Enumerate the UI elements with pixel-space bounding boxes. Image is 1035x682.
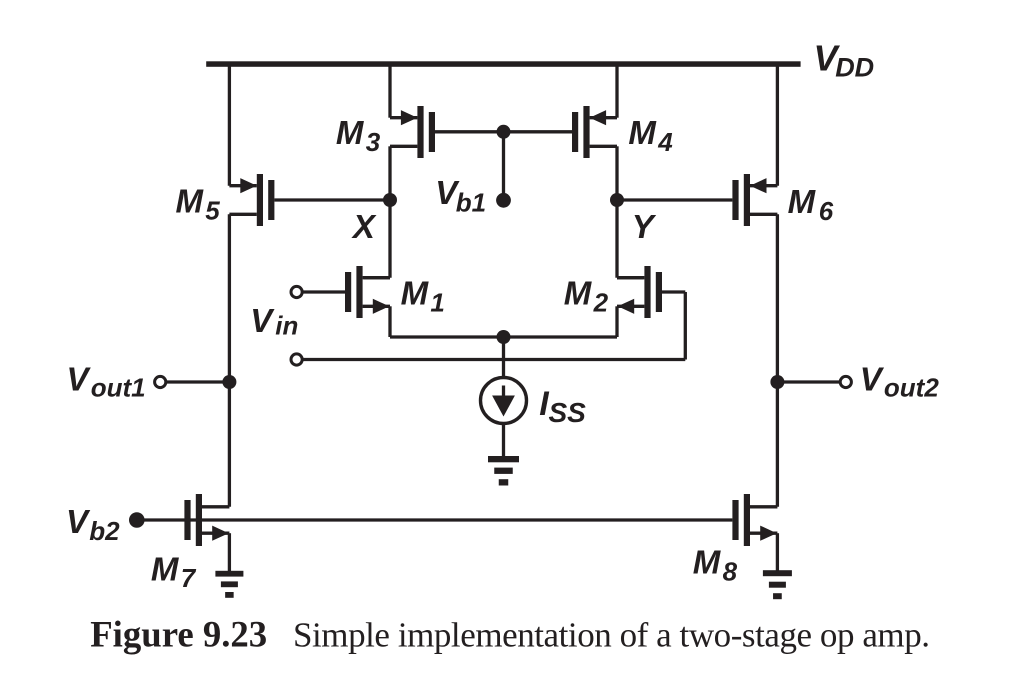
transistor M6: [732, 174, 777, 226]
svg-text:4: 4: [657, 127, 673, 157]
svg-text:1: 1: [430, 288, 444, 318]
label M8: [693, 544, 738, 587]
wire M3 drain to node X: [388, 146, 391, 200]
svg-text:SS: SS: [549, 397, 587, 428]
terminal Vin minus: [291, 354, 302, 365]
svg-text:2: 2: [593, 288, 609, 318]
current source ISS: [481, 378, 527, 424]
svg-text:in: in: [275, 311, 298, 341]
wire M1 source to tail: [388, 306, 391, 337]
svg-text:V: V: [66, 503, 91, 540]
transistor M4: [572, 106, 617, 158]
svg-text:out1: out1: [91, 373, 146, 403]
label VDD: [814, 38, 875, 83]
svg-text:out2: out2: [884, 373, 939, 403]
label M5: [176, 183, 221, 226]
node Vout1 junction: [222, 375, 236, 389]
wire VDD to M4 source: [615, 66, 618, 118]
label ISS: [539, 385, 586, 428]
transistor M5: [229, 174, 274, 226]
wire node X to M1 drain: [388, 200, 391, 278]
label Vin: [250, 302, 298, 341]
label M3: [336, 114, 381, 157]
node Y junction: [610, 193, 624, 207]
svg-text:7: 7: [181, 563, 197, 593]
transistor M7: [184, 494, 229, 546]
wire node Y to M2 drain: [615, 200, 618, 278]
svg-text:M: M: [151, 550, 180, 587]
wire tail to ISS: [502, 337, 505, 377]
ground under M8: [763, 570, 792, 599]
svg-text:M: M: [336, 114, 365, 151]
wire M6 drain to node Vout2: [776, 214, 779, 382]
terminal Vin plus: [291, 286, 302, 297]
svg-text:6: 6: [819, 196, 834, 226]
wire tail horizontal: [390, 335, 617, 338]
wire Vin+ to M1 gate: [303, 290, 345, 293]
wire M3 gate to M4 gate: [435, 130, 572, 133]
wire node Vout1 to M7 drain: [228, 382, 231, 507]
svg-text:Figure 9.23: Figure 9.23: [90, 614, 267, 655]
svg-text:M: M: [628, 114, 657, 151]
svg-text:b1: b1: [456, 187, 486, 217]
label M4: [628, 114, 673, 157]
transistor M1: [345, 266, 390, 318]
wire Vout1 stub: [167, 380, 230, 383]
wire M5 gate to node X: [274, 198, 390, 201]
ground under ISS: [488, 456, 519, 486]
label Vout1: [67, 361, 146, 403]
svg-text:DD: DD: [835, 53, 874, 83]
ground under M7: [215, 571, 243, 598]
wire VDD to M6 source: [776, 66, 779, 186]
wire M8 source to ground: [776, 533, 779, 571]
svg-text:V: V: [250, 302, 275, 339]
label Vb1: [435, 174, 486, 217]
svg-text:Y: Y: [632, 208, 657, 245]
wire M7 source to ground: [228, 533, 231, 571]
wire M6 gate to node Y: [617, 198, 732, 201]
node Vb1 junction: [497, 125, 511, 139]
svg-text:V: V: [860, 361, 885, 398]
node X junction: [383, 193, 397, 207]
wire junction to Vb1 terminal: [502, 132, 505, 201]
node tail junction: [497, 330, 511, 344]
svg-text:8: 8: [723, 556, 738, 586]
label M1: [401, 275, 445, 318]
svg-text:3: 3: [366, 127, 381, 157]
terminal Vb1 dot: [496, 193, 511, 208]
terminal Vb2 dot: [129, 512, 145, 528]
terminal Vout1: [155, 376, 166, 387]
svg-text:b2: b2: [89, 516, 120, 546]
wire VDD to M3 source: [388, 66, 391, 118]
transistor M2: [617, 266, 662, 318]
svg-text:M: M: [176, 183, 205, 220]
svg-text:M: M: [693, 544, 722, 581]
wire M2 source to tail: [615, 306, 618, 337]
wire M5 drain to node Vout1: [228, 214, 231, 382]
svg-text:V: V: [67, 361, 92, 398]
svg-text:M: M: [564, 275, 593, 312]
wire Vout2 stub: [777, 380, 840, 383]
transistor M3: [390, 106, 435, 158]
VDD power rail: [206, 61, 800, 67]
label Vout2: [860, 361, 940, 403]
label M6: [788, 183, 834, 226]
wire Vin- riser to M2 gate: [684, 292, 687, 360]
svg-text:Simple implementation of a two: Simple implementation of a two-stage op …: [293, 616, 930, 655]
label M2: [564, 275, 609, 318]
svg-text:M: M: [401, 275, 430, 312]
transistor M8: [732, 494, 777, 546]
wire node Vout2 to M8 drain: [776, 382, 779, 507]
svg-text:5: 5: [205, 195, 220, 225]
wire M4 drain to node Y: [615, 146, 618, 200]
node Vout2 junction: [770, 375, 784, 389]
label M7: [151, 550, 197, 593]
label Vb2: [66, 503, 120, 546]
wire Vin- line: [303, 358, 686, 361]
svg-text:X: X: [351, 208, 377, 245]
wire Vb2 line to M7 and M8 gates: [137, 518, 733, 521]
wire ISS to ground: [502, 424, 505, 457]
svg-text:M: M: [788, 183, 817, 220]
terminal Vout2: [840, 376, 851, 387]
wire VDD to M5 source: [228, 66, 231, 186]
